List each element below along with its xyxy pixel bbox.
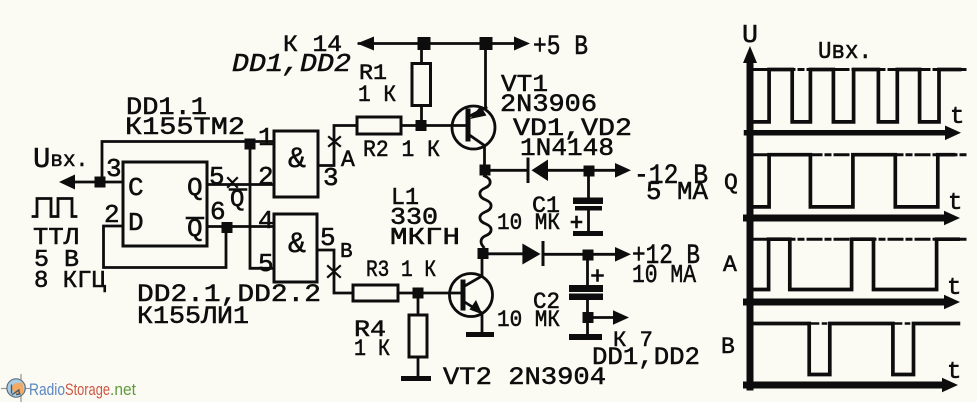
wire node down to gate2 pin5 (250, 147, 274, 268)
svg-text:U: U (742, 20, 758, 50)
capacitor C2 (586, 260, 589, 285)
svg-text:3: 3 (106, 154, 122, 184)
wire gate1 output to R2 (318, 126, 357, 166)
wire VT1 emitter up to rail (484, 44, 487, 108)
wire C2 bottom to ground (586, 323, 589, 334)
svg-text:D: D (128, 208, 144, 238)
wire VT2 emitter down (481, 313, 484, 332)
junction rail/R1 (418, 37, 431, 50)
svg-text:К155ЛИ1: К155ЛИ1 (137, 302, 249, 331)
svg-text:Q: Q (724, 170, 738, 196)
wire feedback Qbar to D (104, 226, 227, 268)
wire R1 bottom (420, 106, 423, 121)
svg-text:A: A (723, 252, 737, 278)
junction gate line node (245, 139, 256, 150)
junction VT1 collector / L1 / -12V row (480, 165, 491, 176)
resistor R1 body (412, 64, 431, 106)
svg-text:&: & (288, 228, 306, 262)
svg-text:VT2 2N3904: VT2 2N3904 (443, 363, 606, 392)
logo crosshair (1, 388, 30, 390)
inductor L1 coil (480, 176, 491, 247)
diode VD2 triangle (522, 244, 540, 265)
resistor R4 body (409, 315, 427, 357)
junction C1 top (584, 166, 595, 177)
wire +5V top rail (359, 42, 517, 45)
wire input node up to gate line (102, 142, 250, 183)
transistor VT1 circle (452, 106, 495, 149)
svg-text:МКГН: МКГН (390, 225, 460, 252)
svg-text:t: t (948, 190, 962, 217)
ground bar under R4 (401, 376, 431, 381)
svg-text:t: t (950, 104, 964, 131)
waveform Q reference dash-dot line (754, 153, 966, 156)
wire +12V row right (543, 253, 618, 256)
transistor VT2 emitter diagonal (463, 301, 482, 313)
gate DD2.2 box (274, 214, 317, 282)
transistor VT1 emitter diagonal (468, 108, 486, 118)
junction rail/VT1 emitter (480, 37, 493, 50)
diode VD1 triangle (532, 160, 549, 182)
wire FF Q output to gate1 pin2 (207, 183, 274, 186)
wire R3 to VT2 base (398, 292, 463, 295)
svg-text:10 МК: 10 МК (497, 307, 560, 333)
svg-text:5: 5 (258, 249, 274, 279)
wire R4 top (417, 298, 420, 315)
transistor VT1 collector diagonal (468, 134, 485, 146)
x mark gate1 output (329, 137, 340, 146)
svg-text:B: B (340, 241, 353, 264)
svg-text:1 К: 1 К (354, 336, 390, 362)
svg-text:&: & (288, 143, 306, 177)
svg-text:1: 1 (258, 123, 274, 153)
logo orange horn (11, 382, 24, 395)
flip-flop DD1.1 box (123, 162, 207, 246)
transistor VT2 circle (450, 274, 493, 317)
waveform Uvx trace (753, 70, 960, 122)
ground bar under C1 (573, 231, 603, 236)
waveform Q t-axis arrow (944, 211, 960, 226)
svg-text:10 МА: 10 МА (632, 260, 696, 290)
svg-text:2: 2 (258, 162, 274, 192)
svg-text:Q: Q (230, 187, 244, 214)
wire R1 top (420, 44, 423, 64)
ground bar VT2 emitter (466, 332, 494, 337)
Qbar gloss overbar (230, 188, 246, 191)
wire FF Qbar output to gate2 pin4 (207, 225, 274, 228)
logo transistor mark (12, 385, 20, 395)
waveform B reference dashes in gaps (810, 322, 830, 325)
junction C2 bottom / K7 row (583, 312, 594, 323)
waveform U axis arrow up (743, 46, 757, 63)
svg-text:t: t (947, 275, 961, 302)
junction R3/R4/base (413, 288, 424, 299)
svg-text:Q: Q (187, 173, 203, 203)
svg-text:+5 В: +5 В (533, 32, 588, 63)
waveform A reference dash-dot line (754, 238, 966, 241)
waveform Q trace (753, 155, 954, 207)
junction Qbar node (222, 222, 233, 233)
transistor VT1 PNP arrow (470, 106, 487, 119)
FF Qbar overbar inside box (187, 217, 203, 220)
svg-text:1N4148: 1N4148 (520, 134, 614, 163)
wire -12V row right (548, 169, 619, 172)
transistor VT1 base bar (466, 111, 471, 139)
waveform A t-axis arrow (944, 295, 960, 310)
svg-text:Uвх.: Uвх. (818, 39, 872, 66)
RadioStorage.net logo (1, 374, 136, 402)
wire R4 bottom (417, 357, 420, 376)
waveform B t-axis arrow (942, 378, 958, 393)
svg-text:5 МА: 5 МА (646, 177, 708, 207)
svg-text:A: A (341, 147, 355, 173)
svg-text:.net: .net (110, 380, 136, 399)
svg-text:DD1,DD2: DD1,DD2 (592, 343, 700, 372)
svg-text:6: 6 (210, 197, 226, 227)
svg-text:B: B (721, 334, 735, 360)
waveform Uvx t-axis (747, 130, 951, 136)
svg-text:К155ТМ2: К155ТМ2 (125, 113, 245, 142)
svg-text:8 КГЦ: 8 КГЦ (34, 268, 107, 295)
C1 plus sign (572, 217, 581, 227)
waveform B t-axis (747, 382, 947, 389)
wire +12V row left (489, 252, 523, 255)
wire gate1 pin1 input (250, 140, 274, 143)
transistor VT2 base bar (461, 282, 466, 308)
junction L1 bottom / +12V row / VT2 collector (478, 248, 489, 259)
svg-text:3: 3 (323, 163, 339, 193)
wire gate2 output to R3 (317, 250, 353, 293)
waveform Uvx t-axis arrow (945, 126, 961, 141)
svg-text:C: C (128, 173, 144, 203)
ground bar under C2 (569, 334, 602, 340)
TTL square wave glyph (33, 199, 76, 217)
diode VD1 cathode bar (527, 159, 530, 182)
svg-text:2: 2 (104, 200, 120, 230)
svg-text:R2 1 К: R2 1 К (363, 137, 440, 163)
waveform Uvx reference dash-dot line (754, 68, 966, 71)
logo globe (7, 379, 25, 397)
x mark gate2 output (328, 266, 340, 277)
waveform A t-axis (747, 299, 949, 306)
gate DD2.1 box (274, 131, 318, 197)
junction input node (95, 177, 106, 188)
wire R2 to VT1 base (401, 124, 468, 127)
svg-text:4: 4 (258, 206, 274, 236)
waveform Q t-axis (747, 215, 949, 222)
node K14 arrow (to pin 14 of DD1,DD2) (357, 37, 374, 51)
wire K7 row (593, 316, 616, 319)
svg-text:DD1,DD2: DD1,DD2 (232, 49, 351, 79)
diode VD2 cathode bar (542, 243, 545, 265)
wire -12V row left (490, 169, 527, 172)
svg-text:Radio: Radio (29, 380, 65, 399)
arrow +12V output (615, 247, 631, 262)
svg-text:5: 5 (209, 162, 225, 192)
svg-text:5: 5 (320, 223, 336, 253)
resistor R2 body (357, 117, 401, 134)
capacitor C1 (587, 176, 590, 198)
C2 plus sign (593, 271, 603, 281)
transistor VT2 NPN arrow (470, 300, 483, 315)
waveform B trace (753, 324, 958, 375)
resistor R3 body (353, 285, 398, 301)
arrow K7 output (613, 310, 629, 325)
junction R1/R2/base (416, 120, 427, 131)
svg-text:t: t (947, 359, 961, 386)
wire VT2 collector up (481, 253, 484, 276)
waveform diagram group (743, 46, 966, 392)
waveform U axis vertical (747, 58, 754, 387)
wire VT1 collector down (483, 146, 486, 171)
waveform A trace (753, 239, 958, 289)
svg-text:10 МК: 10 МК (497, 210, 560, 236)
wire input Uvx with arrow (64, 181, 123, 184)
junction C2 top (583, 250, 594, 261)
node +5V arrow (514, 37, 530, 51)
svg-text:Q: Q (187, 214, 203, 244)
transistor VT2 collector diagonal (463, 276, 482, 287)
x mark on Q wire (228, 178, 237, 187)
svg-text:1 К: 1 К (358, 82, 396, 108)
svg-text:Storage: Storage (65, 380, 110, 399)
svg-text:R3 1 К: R3 1 К (366, 257, 436, 283)
arrow -12V output (615, 163, 631, 178)
